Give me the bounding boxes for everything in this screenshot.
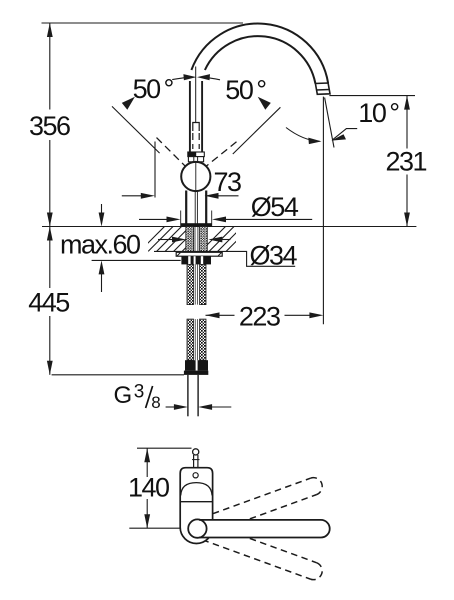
- SPOUT: white ring fill: [191, 24, 328, 84]
- dashed swivel spout upper: [203, 475, 325, 534]
- LEVER tube above ball: [190, 67, 202, 163]
- solid spout in plan: [199, 520, 330, 538]
- 445 arrows: [47, 227, 53, 241]
- 223 arrows: [206, 312, 220, 318]
- mounting nut: [181, 256, 211, 264]
- lever centre line: [195, 67, 197, 123]
- flexible hoses lower section: [187, 319, 206, 360]
- spout pivot circle: [188, 519, 206, 537]
- spout outer arc: [191, 24, 328, 83]
- threaded shank through deck: [186, 227, 208, 252]
- plan body: [180, 468, 212, 544]
- 140 top reference line: [137, 447, 192, 449]
- swing arc arrow curve: [286, 128, 320, 142]
- svg-text:10 °: 10 °: [358, 98, 399, 128]
- collar band upper (half dark): [188, 152, 205, 162]
- hose end bar: [184, 371, 208, 375]
- max.60 arrows: [99, 213, 105, 227]
- supply tube below hoses: [187, 375, 189, 416]
- hidden cartridge stem: [193, 123, 199, 132]
- 140 bottom reference line: [129, 527, 180, 529]
- text G 3/8: [114, 382, 161, 412]
- 231 dimension line: [406, 96, 408, 149]
- deck bottom line joining diameter 34 label leader: [154, 251, 295, 266]
- plan inner circle: [193, 473, 198, 478]
- plan lever neck: [193, 455, 195, 468]
- svg-text:3: 3: [134, 382, 145, 403]
- deck / counter top line: [42, 226, 416, 228]
- plan body mid line: [180, 501, 212, 503]
- 10 degree detail lines: [286, 98, 357, 148]
- G 3/8 dimension arrows: [166, 406, 176, 408]
- flexible hoses upper section: [187, 264, 206, 304]
- 50deg arrowhead left: [122, 97, 135, 110]
- plan lever tip circle: [193, 449, 199, 455]
- svg-text:223: 223: [239, 301, 280, 331]
- aerator end piece: [315, 83, 330, 94]
- ball centre line: [195, 162, 197, 191]
- flange washer under deck: [176, 252, 222, 256]
- diameter 34 dimension arrows: [158, 239, 173, 241]
- base plate on deck: [181, 223, 212, 226]
- svg-text:231: 231: [386, 147, 427, 177]
- leader from 10deg label: [333, 129, 357, 140]
- 231 extension line at spout outlet: [329, 95, 415, 97]
- svg-text:73: 73: [214, 167, 242, 197]
- svg-text:50 °: 50 °: [133, 74, 174, 104]
- arrowheads for linear dimensions: [47, 23, 410, 375]
- diameter 54 extension lines: [180, 211, 182, 227]
- svg-text:140: 140: [128, 472, 169, 502]
- 73 arrow tails: [122, 195, 142, 197]
- 73 extension line: [154, 142, 156, 198]
- 445 dimension line: [49, 227, 51, 289]
- max.60 arrow tails: [101, 204, 103, 215]
- arrowhead of 10deg leader: [331, 134, 346, 140]
- hose end connectors: [185, 360, 196, 370]
- 50deg leader line right: [233, 107, 281, 154]
- 356 arrows: [47, 23, 53, 37]
- arrowhead of swing arc: [308, 138, 321, 145]
- svg-text:445: 445: [28, 287, 69, 317]
- svg-text:max.60: max.60: [60, 230, 140, 260]
- top reference line: [42, 22, 244, 24]
- plan dome arc: [181, 483, 212, 496]
- 356 dimension line: [49, 23, 51, 110]
- collar band lower: [188, 157, 203, 162]
- spout inner arc: [205, 36, 316, 83]
- diameter 54 dimension arrows: [139, 218, 167, 220]
- dashed swivel spout lower: [202, 523, 324, 582]
- lever right edge: [201, 81, 203, 162]
- spout axis vertical line: [322, 97, 324, 325]
- 231 arrows: [404, 96, 410, 110]
- dashed lever swung position left: [157, 138, 186, 167]
- GROUP: front view dimension framework: [42, 23, 417, 375]
- bottom reference line (hose end): [52, 374, 184, 376]
- 140 dimension line: [146, 448, 148, 477]
- 50deg leader line left: [112, 106, 160, 153]
- lever left edge: [189, 81, 191, 162]
- svg-text:8: 8: [151, 393, 160, 412]
- dimension texts: [28, 74, 426, 503]
- 223 dimension line: [206, 314, 235, 316]
- deck hatching left: [138, 225, 209, 253]
- svg-text:356: 356: [29, 111, 70, 141]
- tilted outlet line 10deg: [325, 98, 334, 148]
- 50deg angular arrows meeting at lever: [172, 74, 220, 80]
- ball joint: [181, 162, 210, 191]
- svg-text:G: G: [114, 382, 133, 409]
- body column below ball: [186, 191, 206, 225]
- 73 dimension: [122, 142, 239, 198]
- svg-text:Ø54: Ø54: [251, 192, 299, 222]
- 50deg arrowhead right: [258, 97, 271, 110]
- deck hatching right: [199, 225, 253, 253]
- dashed lever swung position right: [206, 142, 236, 166]
- max.60 bottom reference line: [92, 259, 181, 261]
